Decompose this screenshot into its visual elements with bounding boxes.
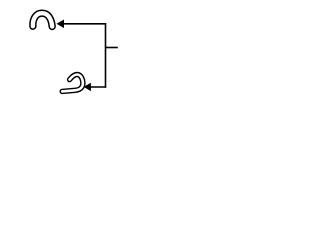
doodle arch (top-left component) <box>33 13 52 26</box>
wire bottom horizontal <box>90 86 107 88</box>
background <box>0 0 150 107</box>
wire stub tick <box>106 47 118 49</box>
doodle squiggle (bottom component) <box>62 74 83 91</box>
arrowhead top (points left at arch) <box>57 20 65 29</box>
arrowhead bottom (points left at squiggle) <box>84 83 91 91</box>
wire vertical bus <box>105 23 107 88</box>
wire top horizontal <box>63 23 107 25</box>
